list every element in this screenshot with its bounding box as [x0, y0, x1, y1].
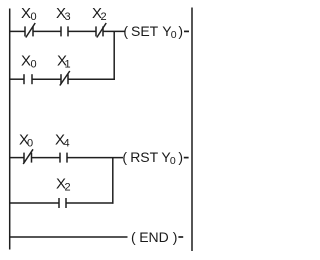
right power rail: [191, 8, 193, 252]
contact X1 NC rung2: [60, 74, 62, 84]
contact X3 NO rung1: [60, 26, 62, 36]
contact X0 NC rung3: [23, 153, 25, 163]
wire rung3 X4 to RST coil: [67, 157, 123, 159]
contact X4 NO rung3: [59, 153, 61, 163]
branch wire rung2 up to rung1: [113, 31, 115, 79]
svg-text:SET: SET: [131, 23, 159, 39]
svg-text:): ): [178, 23, 183, 39]
svg-text:X2: X2: [92, 5, 107, 23]
svg-text:X3: X3: [56, 5, 71, 23]
svg-text:(: (: [123, 23, 128, 39]
wire rung2 X1 to branch: [68, 78, 115, 80]
contact X0 NC rung1: [24, 26, 26, 36]
svg-text:(: (: [122, 149, 127, 165]
svg-text:END: END: [139, 229, 169, 245]
svg-text:(: (: [131, 229, 136, 245]
svg-text:): ): [178, 149, 183, 165]
left power rail: [9, 9, 11, 250]
svg-text:0: 0: [170, 155, 176, 167]
wire rung2 X0 to X1: [32, 78, 61, 80]
wire rung1 X2 to SET coil: [103, 30, 125, 32]
wire rung1 X0 to X3: [33, 30, 61, 32]
svg-text:0: 0: [171, 29, 177, 41]
wire rung3 rail to X0: [9, 157, 24, 159]
contact X0 NO rung2: [23, 74, 25, 84]
svg-text:X4: X4: [55, 132, 70, 150]
wire rung1 X3 to X2: [68, 30, 96, 32]
svg-text:X1: X1: [57, 53, 71, 71]
contact X2 NC rung1: [95, 26, 97, 36]
wire rung4 rail to X2: [9, 202, 59, 204]
wire rung3 X0 to X4: [32, 157, 61, 159]
wire rung4 X2 to branch: [66, 202, 114, 204]
svg-text:): ): [173, 229, 178, 245]
contact X2 NO rung4: [58, 198, 60, 208]
svg-text:X0: X0: [19, 132, 33, 150]
svg-text:X0: X0: [21, 53, 37, 71]
wire rung5 rail to END coil: [9, 236, 128, 238]
branch wire rung4 up to rung3: [112, 158, 114, 204]
svg-text:X0: X0: [21, 5, 37, 23]
wire rung1 rail to X0: [9, 30, 25, 32]
svg-text:RST: RST: [130, 149, 158, 165]
svg-text:X2: X2: [56, 176, 71, 194]
wire rung2 rail to X0: [9, 78, 24, 80]
